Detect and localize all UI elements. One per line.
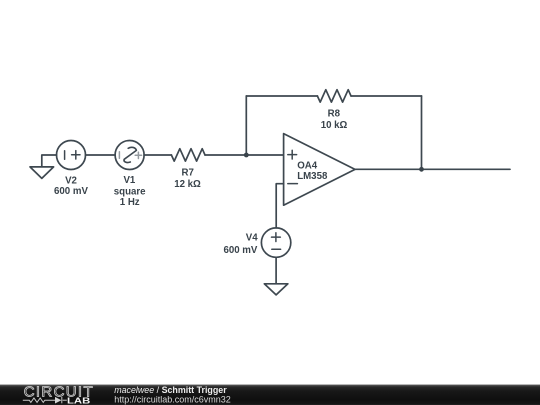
wire op-amp - input stub: [276, 184, 283, 228]
svg-text:macelwee / Schmitt Trigger: macelwee / Schmitt Trigger: [114, 385, 227, 395]
footer bar: [0, 385, 540, 405]
svg-text:R8: R8: [328, 109, 341, 120]
voltage source V2: [57, 141, 86, 170]
wire V1 to R7: [144, 154, 171, 156]
CircuitLab logo: [23, 383, 94, 405]
voltage source V4: [261, 228, 290, 257]
wire feedback right vertical: [421, 96, 423, 169]
node A (R7 / feedback / op-amp +): [244, 153, 249, 158]
svg-text:10 kΩ: 10 kΩ: [321, 120, 348, 131]
wire feedback top left: [246, 95, 317, 97]
resistor R7: [171, 149, 205, 161]
footer title text: [114, 385, 231, 405]
wire V4 to ground: [275, 257, 277, 284]
wire ground1 to V2: [42, 155, 57, 167]
svg-text:R7: R7: [182, 168, 194, 179]
ground (near V2): [30, 167, 54, 179]
svg-text:LAB: LAB: [67, 395, 90, 405]
op-amp OA4: [284, 134, 355, 206]
ground (below V4): [264, 284, 288, 295]
svg-text:http://circuitlab.com/c6vmn32: http://circuitlab.com/c6vmn32: [114, 394, 231, 404]
wire feedback left vertical: [245, 96, 247, 155]
svg-text:square: square: [114, 186, 146, 197]
svg-text:V1: V1: [123, 175, 135, 186]
wire R7 to op-amp + input: [205, 154, 284, 156]
svg-text:OA4: OA4: [297, 160, 318, 171]
wire output: [355, 168, 510, 170]
svg-text:600 mV: 600 mV: [223, 245, 257, 256]
resistor R8: [317, 90, 351, 102]
node B (op-amp output / feedback): [419, 167, 424, 172]
voltage source V1 (square): [115, 141, 144, 170]
wire V2 to V1: [86, 154, 116, 156]
svg-text:12 kΩ: 12 kΩ: [174, 179, 201, 190]
svg-text:LM358: LM358: [297, 171, 328, 182]
svg-text:1 Hz: 1 Hz: [120, 197, 140, 208]
wire feedback top right: [351, 95, 421, 97]
svg-text:600 mV: 600 mV: [54, 186, 88, 197]
svg-text:V4: V4: [246, 232, 258, 243]
